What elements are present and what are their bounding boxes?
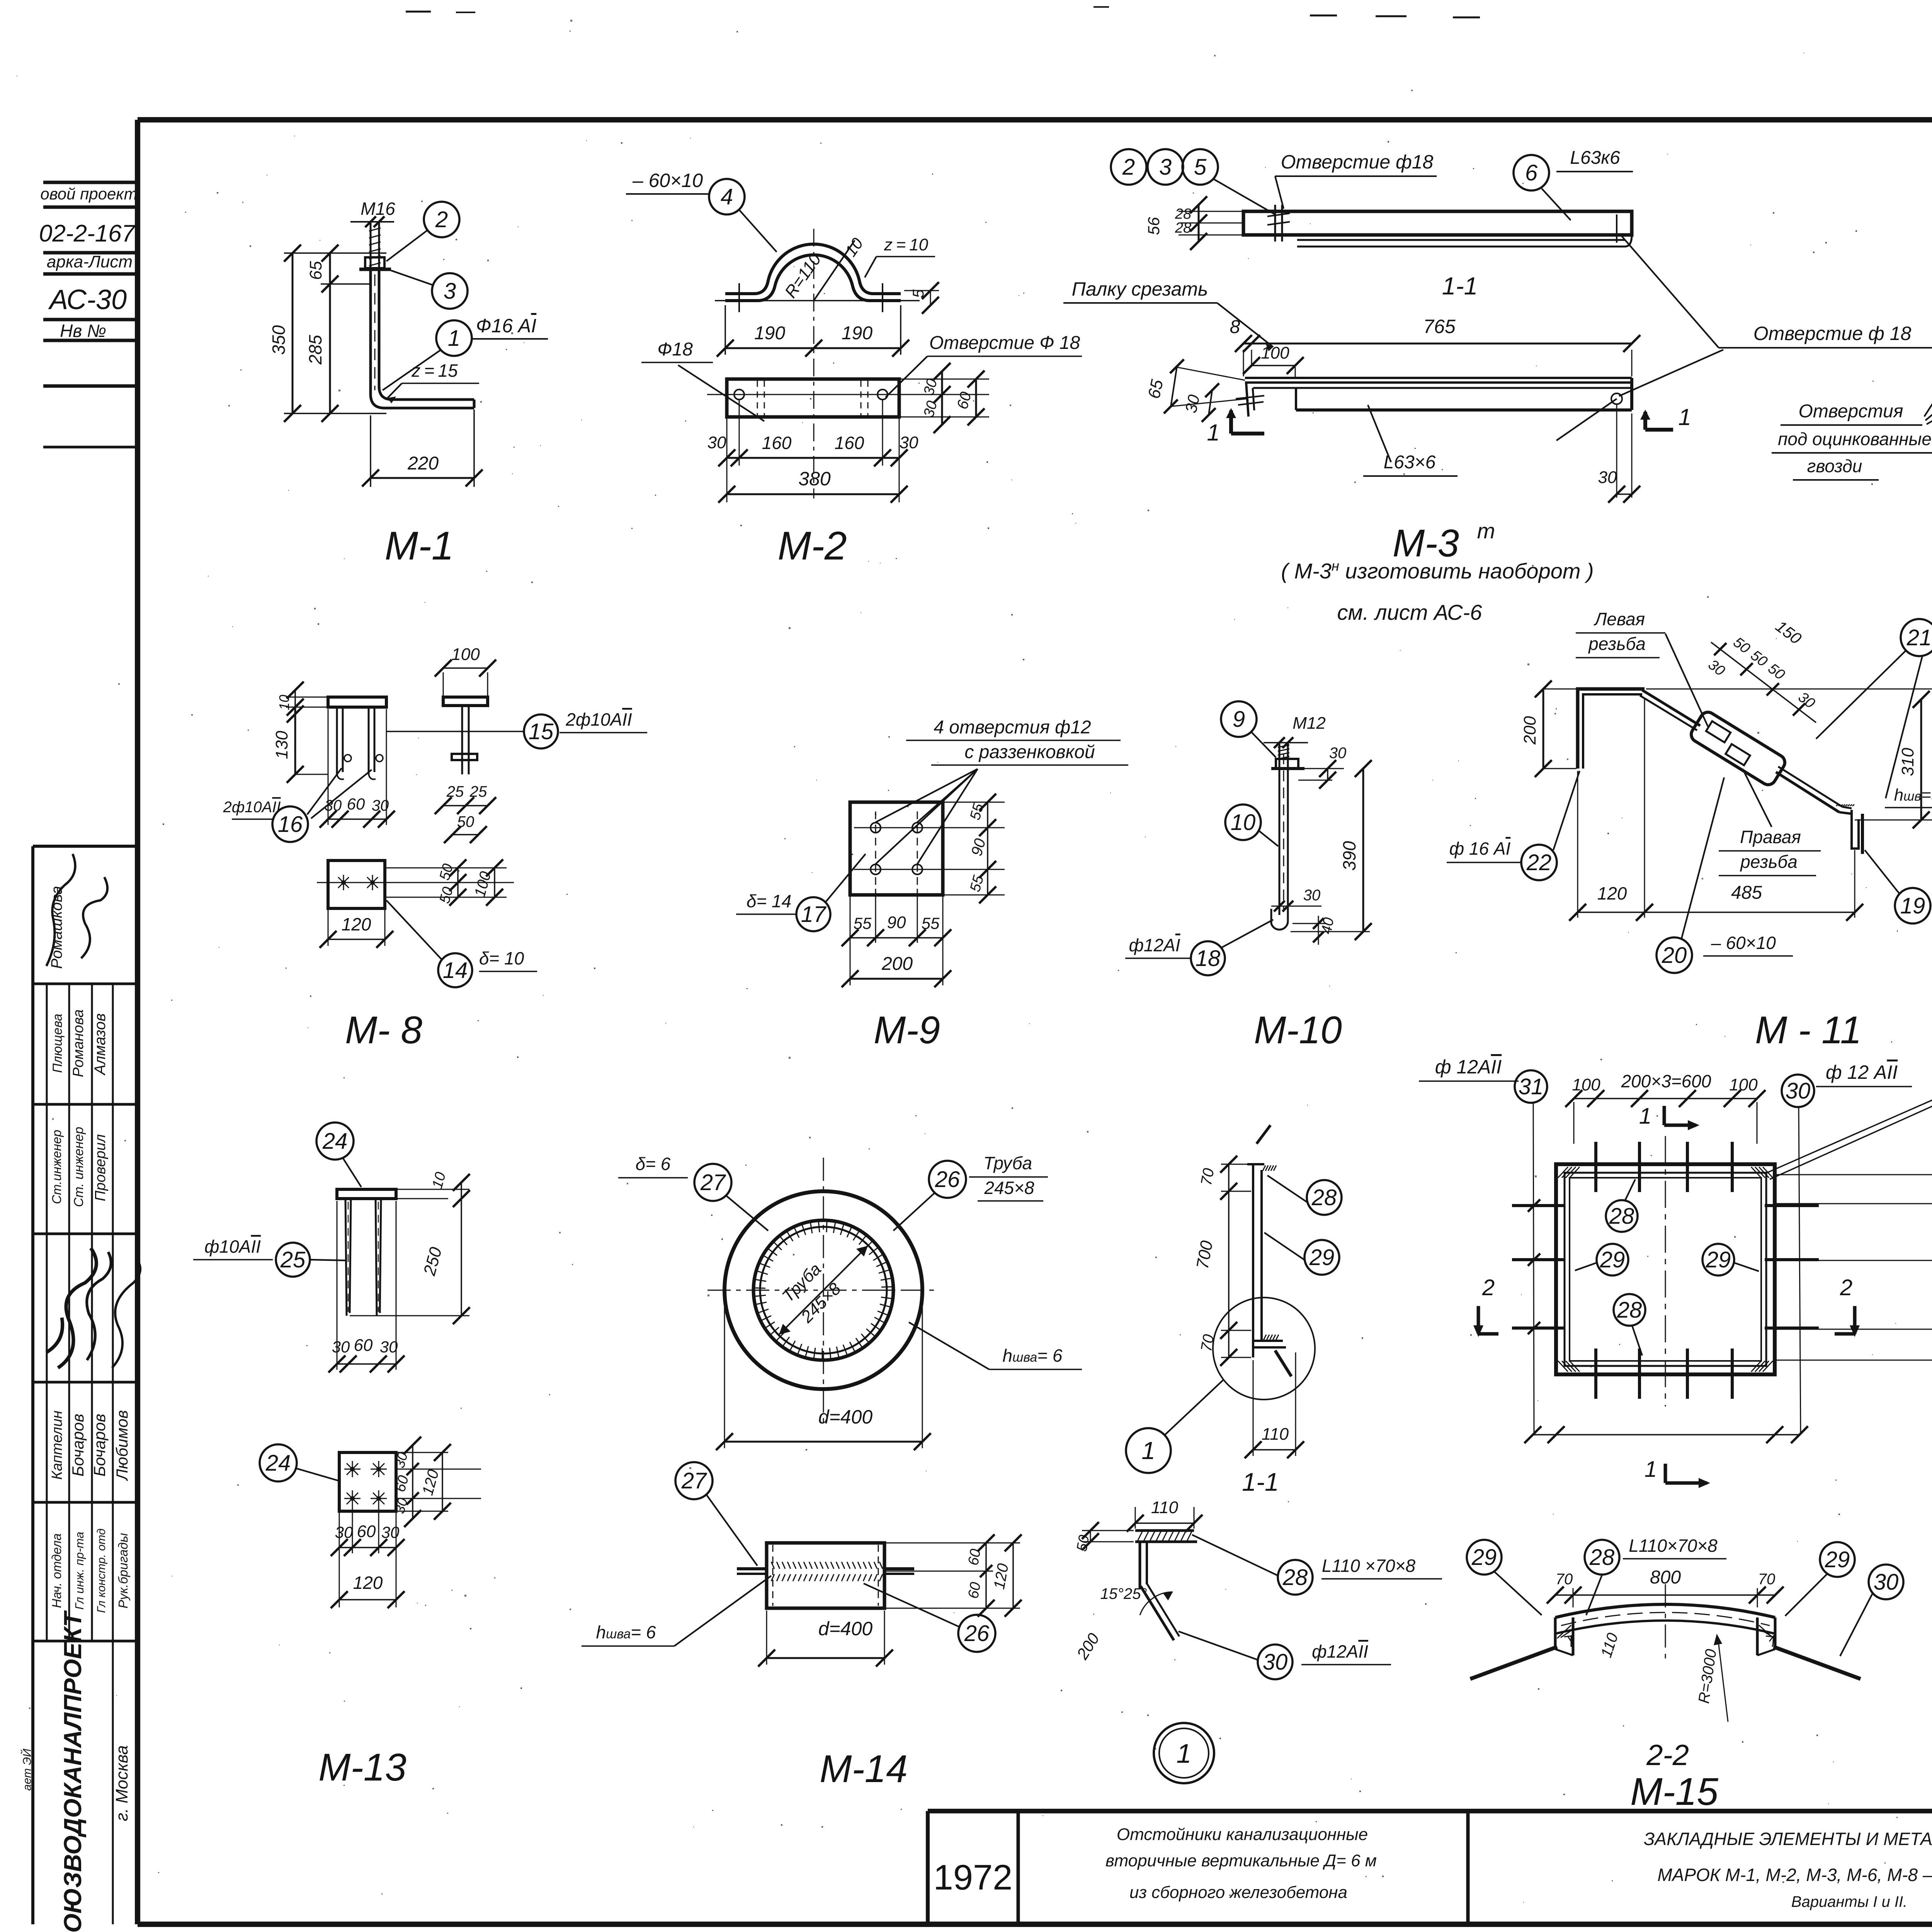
M-1 callout circle 2 — [424, 202, 459, 237]
M-8 elevation plate — [328, 697, 386, 707]
M-11 dim 200 — [1543, 689, 1577, 690]
M-15 inner squares — [1565, 1173, 1766, 1366]
svg-text:56: 56 — [1145, 217, 1163, 235]
svg-text:30: 30 — [332, 1338, 350, 1356]
figure M-15 section 2-2 curved sheet — [1555, 1604, 1775, 1617]
svg-text:2ф10АII: 2ф10АII — [223, 799, 281, 816]
1-1 dims 70 700 70 — [1221, 1164, 1251, 1165]
svg-text:55: 55 — [922, 914, 940, 932]
svg-text:2: 2 — [1840, 1275, 1852, 1300]
svg-text:8: 8 — [1230, 317, 1240, 337]
M-9 right dims 55 90 55 — [944, 802, 1005, 803]
svg-text:4 отверстия ф12: 4 отверстия ф12 — [934, 717, 1091, 738]
M-2 dim 380 — [727, 493, 899, 495]
M-2 callout 4 — [709, 179, 745, 214]
M-11 callout 19 L90x6 — [1895, 888, 1930, 923]
svg-text:10: 10 — [276, 695, 292, 710]
svg-text:25: 25 — [446, 783, 464, 800]
svg-text:гвозди: гвозди — [1807, 456, 1862, 476]
1-1 callouts 28 29 — [1307, 1180, 1342, 1215]
svg-text:ЗАКЛАДНЫЕ ЭЛЕМЕНТЫ И МЕ: ЗАКЛАДНЫЕ ЭЛЕМЕНТЫ И МЕТАЛЛОИЗДЕЛИЯ — [1644, 1829, 1932, 1849]
M-2 dim 190+190 — [724, 305, 726, 355]
M-8 callout 16 — [272, 806, 308, 842]
svg-text:овой проект: овой проект — [40, 185, 137, 203]
2-2 dims 70 800 70 — [1573, 1588, 1574, 1607]
M-3 top bar left end hole marks — [1274, 205, 1276, 241]
svg-text:60: 60 — [965, 1581, 984, 1600]
svg-text:30: 30 — [1263, 1650, 1288, 1675]
svg-text:М-15: М-15 — [1630, 1770, 1718, 1813]
svg-text:Гл инж. пр-та: Гл инж. пр-та — [73, 1532, 86, 1610]
stamp table rotated texts — [46, 854, 75, 966]
svg-text:2: 2 — [435, 207, 448, 232]
svg-text:130: 130 — [272, 731, 291, 759]
M-8 tee view — [443, 667, 488, 669]
svg-text:30: 30 — [1786, 1078, 1811, 1104]
M-14 axis lines — [707, 1290, 939, 1291]
svg-text:390: 390 — [1339, 841, 1359, 871]
M-14 side weld hatch — [771, 1562, 883, 1581]
svg-text:15°⁭25°: 15°⁭25° — [1100, 1585, 1147, 1602]
M-14 side dims 60 60 120 — [886, 1543, 1020, 1544]
svg-text:120: 120 — [1597, 883, 1627, 903]
svg-text:60: 60 — [357, 1522, 376, 1541]
M-11 dims 120 485 — [1577, 771, 1578, 918]
svg-text:– 60×10: – 60×10 — [1711, 933, 1776, 953]
svg-text:Отверстия: Отверстия — [1798, 401, 1903, 422]
svg-text:М-10: М-10 — [1254, 1009, 1342, 1052]
svg-text:19: 19 — [1900, 893, 1925, 918]
M-15 outer square — [1556, 1164, 1775, 1374]
M-13 plan bottom dims — [339, 1513, 340, 1607]
svg-text:350: 350 — [269, 325, 289, 355]
M-2 side dims 30 30 60 — [899, 379, 989, 380]
svg-text:М-9: М-9 — [874, 1009, 940, 1052]
M-2 radius line R=110 — [814, 240, 855, 301]
title block — [928, 1809, 1932, 1813]
M-10 callouts 9 10 18 — [1221, 701, 1257, 737]
svg-text:3: 3 — [1159, 155, 1172, 180]
bent rod — [1141, 1586, 1174, 1640]
svg-text:14: 14 — [443, 958, 468, 983]
svg-text:30: 30 — [1874, 1570, 1899, 1595]
svg-text:Бочаров: Бочаров — [90, 1414, 109, 1477]
svg-text:1-1: 1-1 — [1242, 1468, 1279, 1496]
svg-text:Ромашкова: Ромашкова — [48, 886, 65, 969]
svg-text:220: 220 — [407, 453, 439, 474]
svg-text:М12: М12 — [1293, 714, 1326, 733]
svg-text:28: 28 — [1311, 1185, 1337, 1210]
M-8 plan plate — [328, 861, 385, 908]
M-8 plan right dims 50 50 100 — [385, 867, 507, 869]
svg-text:δ= 10: δ= 10 — [479, 948, 524, 968]
M-10 nut washer — [1276, 759, 1298, 769]
svg-text:1: 1 — [1678, 404, 1691, 430]
M-1 dim 220 bottom — [370, 415, 371, 487]
M-1 nut and washer — [365, 257, 384, 268]
svg-text:31: 31 — [1519, 1074, 1544, 1099]
svg-text:29: 29 — [1309, 1245, 1335, 1270]
svg-text:20: 20 — [1662, 943, 1687, 968]
M-13 plan right dims 30 60 30 / 120 — [398, 1452, 448, 1453]
svg-text:25: 25 — [280, 1247, 306, 1272]
1-1 detail circle — [1213, 1298, 1315, 1400]
M-13 plan plate — [339, 1452, 396, 1511]
M-3 bottom view flange notch — [1295, 388, 1297, 410]
svg-text:2ф10АII: 2ф10АII — [565, 709, 632, 730]
svg-text:70: 70 — [1758, 1571, 1776, 1588]
svg-text:1: 1 — [1207, 420, 1219, 446]
M-15 corner weld hatch — [1558, 1167, 1568, 1178]
2-2 end angle blocks — [1572, 1617, 1575, 1655]
svg-text:т: т — [1477, 519, 1495, 543]
M-3 dim 8 + 765 — [1243, 350, 1244, 376]
svg-text:5: 5 — [1194, 155, 1207, 180]
M-15 callouts 28 29 inside — [1606, 1200, 1638, 1232]
svg-text:Нв №: Нв № — [60, 321, 106, 341]
M-11 slanted dims over turnbuckle — [1711, 642, 1816, 723]
svg-text:380: 380 — [798, 468, 831, 490]
svg-text:L63×6: L63×6 — [1384, 452, 1436, 473]
M-8 hook rods — [336, 707, 338, 774]
M-14 side flange — [737, 1567, 767, 1570]
svg-text:Отверстие ф18: Отверстие ф18 — [1281, 151, 1434, 173]
svg-text:90: 90 — [887, 913, 906, 932]
M-8 tee dims 25 25 50 — [443, 805, 488, 806]
angle horizontal leg — [1135, 1529, 1194, 1532]
svg-text:под оцинкованные: под оцинкованные — [1778, 429, 1932, 449]
M-15 long diagonal leaders to corner — [1764, 1098, 1932, 1174]
svg-text:Рук.бригады: Рук.бригады — [116, 1533, 130, 1608]
figure M-13: elevation — [337, 1189, 396, 1199]
svg-text:Отверстие Ф 18: Отверстие Ф 18 — [929, 333, 1080, 353]
svg-text:120: 120 — [353, 1573, 383, 1593]
M-3 dim 30 under hole — [1616, 404, 1617, 498]
svg-text:16: 16 — [278, 812, 303, 837]
M-1 dim 65 / 285 — [329, 253, 331, 413]
svg-text:1: 1 — [1639, 1104, 1651, 1129]
svg-text:26: 26 — [964, 1621, 990, 1646]
svg-text:ает ЭЙ: ает ЭЙ — [20, 1748, 34, 1791]
svg-text:3: 3 — [444, 279, 456, 304]
svg-text:Проверил: Проверил — [92, 1134, 109, 1201]
M-14 side view — [767, 1543, 884, 1608]
M-14 callout 27 side — [675, 1462, 713, 1499]
svg-text:60: 60 — [347, 795, 365, 813]
M-2 plan holes — [734, 389, 744, 400]
svg-text:Ф18: Ф18 — [657, 339, 693, 360]
svg-text:30: 30 — [372, 797, 389, 814]
M-13 bottom dims 30 60 30 — [337, 1201, 338, 1370]
upper-left stamp strip lines — [43, 181, 138, 184]
svg-text:4: 4 — [721, 184, 733, 209]
svg-text:60: 60 — [354, 1336, 373, 1355]
M-13 studs — [345, 1199, 347, 1316]
svg-text:ф 12 АII: ф 12 АII — [1826, 1061, 1898, 1083]
M-9 bottom dims 55 90 55 / 200 — [850, 896, 851, 985]
svg-text:285: 285 — [305, 335, 325, 365]
M-9 leader fan — [876, 769, 978, 822]
svg-text:30: 30 — [900, 433, 918, 452]
M-15 centreline dashed — [1665, 1136, 1666, 1406]
svg-text:30: 30 — [707, 433, 726, 452]
M-15 left dim column — [1512, 1205, 1534, 1206]
2-2 R=3000 — [1718, 1638, 1728, 1722]
svg-text:АС-30: АС-30 — [48, 284, 127, 315]
svg-text:М16: М16 — [361, 199, 395, 219]
svg-text:δ= 6: δ= 6 — [636, 1154, 671, 1174]
svg-text:765: 765 — [1423, 316, 1456, 337]
svg-text:100: 100 — [451, 645, 480, 664]
M-1 rod (phi16) bent L-shape — [371, 269, 474, 408]
M-2 centre axis — [813, 229, 815, 498]
svg-text:28: 28 — [1609, 1204, 1634, 1229]
svg-text:160: 160 — [762, 433, 792, 453]
M-14 weld hatch around inner ring — [754, 1221, 893, 1360]
svg-text:L63к6: L63к6 — [1570, 148, 1620, 168]
svg-text:100: 100 — [1261, 344, 1289, 362]
M-8 callout 14 delta=10 — [386, 900, 441, 959]
svg-text:( М-3н изготовить наоборот: ( М-3н изготовить наоборот ) — [1281, 558, 1594, 583]
svg-text:2-2: 2-2 — [1646, 1739, 1689, 1772]
svg-text:Ф16 АI: Ф16 АI — [476, 315, 537, 337]
svg-text:L110×70×8: L110×70×8 — [1629, 1536, 1718, 1556]
svg-text:Любимов: Любимов — [113, 1410, 131, 1481]
svg-text:10: 10 — [1231, 810, 1256, 835]
svg-text:100: 100 — [1729, 1075, 1758, 1094]
svg-text:Ст. инженер: Ст. инженер — [71, 1127, 86, 1207]
svg-text:1: 1 — [1645, 1457, 1657, 1482]
svg-text:30: 30 — [1598, 468, 1617, 487]
svg-text:29: 29 — [1471, 1545, 1497, 1570]
M-8 callout 15 — [386, 731, 524, 732]
2-2 splayed rebar ends — [1470, 1647, 1557, 1679]
1-1 top weld ticks — [1263, 1165, 1265, 1171]
svg-text:6: 6 — [1525, 160, 1538, 185]
svg-text:200×3=600: 200×3=600 — [1621, 1071, 1711, 1091]
svg-text:МАРОК М-1, М-2, М-3, М-6, М: МАРОК М-1, М-2, М-3, М-6, М-8 — М-15, М-… — [1657, 1865, 1932, 1885]
M-13 plan weld stars — [344, 1469, 361, 1470]
svg-text:Правая: Правая — [1740, 827, 1801, 847]
M-3 bottom view main bar — [1245, 377, 1632, 379]
svg-text:СОЮЗВОДОКАНАЛПРОЕКТ: СОЮЗВОДОКАНАЛПРОЕКТ — [59, 1610, 87, 1932]
M-2 foot hole marks — [738, 283, 740, 312]
svg-text:Отверстие ф 18: Отверстие ф 18 — [1753, 323, 1912, 344]
M-11 dim 310 right — [1646, 689, 1932, 690]
M-10 bottom hook — [1271, 909, 1288, 930]
svg-text:Ст.инженер: Ст.инженер — [49, 1130, 64, 1204]
M-11 callout 20 -60x10 — [1656, 937, 1692, 973]
M-14 inner diameter arrow — [779, 1246, 868, 1335]
M-15 anchor ticks top/bottom — [1594, 1142, 1597, 1192]
M-9 holes — [871, 823, 881, 833]
svg-text:вторичные вертикальные Д= 6 м: вторичные вертикальные Д= 6 м — [1105, 1851, 1377, 1870]
1-1 callout 1 — [1126, 1428, 1171, 1473]
M-11 turnbuckle body — [1689, 709, 1788, 788]
svg-text:29: 29 — [1825, 1547, 1850, 1572]
svg-text:30: 30 — [1303, 887, 1321, 904]
svg-text:29: 29 — [1600, 1247, 1625, 1272]
M-3 callout circles 2 3 5 — [1111, 149, 1146, 185]
svg-text:30: 30 — [380, 1338, 398, 1356]
M-2 arch outer and inner — [725, 244, 901, 294]
svg-text:15: 15 — [529, 719, 554, 744]
M-10 rod — [1279, 743, 1281, 915]
M-15 anchor ticks left/right — [1512, 1204, 1564, 1207]
svg-text:27: 27 — [681, 1468, 707, 1493]
svg-text:18: 18 — [1196, 946, 1221, 971]
svg-text:28: 28 — [1282, 1565, 1308, 1590]
svg-text:ф12АI: ф12АI — [1129, 935, 1180, 955]
M-8 plan dim 120 — [328, 910, 329, 946]
M-2 plan view plate — [727, 379, 899, 417]
svg-text:29: 29 — [1706, 1247, 1731, 1272]
svg-text:2: 2 — [1122, 155, 1135, 180]
M-3 section mark 1 bottom-left — [1229, 410, 1233, 427]
M-13 callout 24 plan — [260, 1444, 297, 1481]
M-3 section mark 1 right — [1643, 412, 1647, 430]
svg-text:70: 70 — [1198, 1333, 1218, 1353]
left stamp table grid — [31, 846, 34, 1924]
svg-text:Палку срезать: Палку срезать — [1072, 278, 1208, 300]
M-8 plan weld stars — [336, 882, 351, 883]
svg-text:Каптелин: Каптелин — [49, 1410, 65, 1480]
svg-text:δ= 14: δ= 14 — [747, 891, 791, 911]
svg-text:ф 12АII: ф 12АII — [1435, 1056, 1502, 1078]
stray dashes above top frame — [1310, 15, 1337, 17]
svg-text:24: 24 — [265, 1451, 291, 1476]
svg-text:z = 10: z = 10 — [884, 235, 929, 254]
M-3 dim 100 — [1295, 367, 1296, 378]
svg-text:из сборного железобетона: из сборного железобетона — [1129, 1883, 1347, 1902]
svg-text:1-1: 1-1 — [1442, 272, 1478, 300]
svg-text:Отстойники канализационные: Отстойники канализационные — [1117, 1825, 1368, 1844]
svg-text:310: 310 — [1898, 748, 1917, 776]
M-8 bottom dims 30 60 30 — [328, 709, 329, 825]
2-2 callouts 29 28 29 30 — [1467, 1540, 1502, 1575]
M-14 callout 26 side — [958, 1615, 995, 1652]
M-10 dim 30 washer — [1304, 768, 1344, 769]
svg-text:М-2: М-2 — [777, 524, 847, 568]
svg-text:30: 30 — [1329, 745, 1347, 762]
svg-text:d=400: d=400 — [818, 1406, 873, 1428]
svg-text:27: 27 — [700, 1170, 726, 1195]
svg-text:55: 55 — [854, 914, 872, 932]
svg-text:М- 8: М- 8 — [345, 1009, 422, 1052]
svg-text:М-14: М-14 — [820, 1747, 908, 1791]
svg-text:2: 2 — [1482, 1275, 1495, 1300]
svg-text:28: 28 — [1175, 220, 1191, 236]
M-13 callout 24 top — [316, 1122, 354, 1160]
svg-text:ф10АII: ф10АII — [204, 1236, 261, 1257]
svg-text:Труба: Труба — [983, 1153, 1032, 1173]
svg-text:см. лист АС-6: см. лист АС-6 — [1337, 600, 1483, 624]
M-1 callout circle 3 — [432, 273, 468, 309]
svg-text:резьба: резьба — [1740, 852, 1798, 872]
svg-text:28: 28 — [1617, 1298, 1642, 1323]
svg-text:120: 120 — [342, 914, 371, 934]
svg-text:30: 30 — [381, 1523, 400, 1541]
M-11 right angle piece — [1836, 804, 1838, 806]
M-15 right dims 100 250 250 100 — [1776, 1174, 1932, 1175]
svg-text:25: 25 — [469, 783, 487, 800]
M-11 callout 21 phi16AI — [1901, 619, 1932, 656]
callout 30 phi12AII — [1258, 1645, 1293, 1679]
M-3 bottom view left tab — [1246, 383, 1248, 417]
svg-text:г. Москва: г. Москва — [112, 1745, 131, 1821]
svg-text:– 60×10: – 60×10 — [632, 170, 703, 191]
svg-text:26: 26 — [935, 1167, 960, 1192]
svg-text:110: 110 — [1262, 1425, 1289, 1444]
svg-text:245×8: 245×8 — [984, 1178, 1034, 1198]
svg-text:60: 60 — [965, 1548, 984, 1566]
svg-text:17: 17 — [801, 902, 827, 927]
M-2 bottom dims 30 160 160 30 — [726, 418, 728, 502]
M-3 left dims 56 28 28 — [1179, 211, 1243, 212]
svg-text:200: 200 — [1520, 716, 1539, 745]
svg-text:22: 22 — [1526, 850, 1552, 875]
1-1 bottom leg — [1253, 1340, 1283, 1342]
svg-text:М - 11: М - 11 — [1755, 1009, 1862, 1052]
svg-text:160: 160 — [835, 433, 864, 453]
svg-text:02-2-167: 02-2-167 — [39, 220, 136, 247]
svg-text:70: 70 — [1556, 1571, 1573, 1588]
M-15 bottom dim line — [1533, 1434, 1799, 1435]
svg-text:L110 ×70×8: L110 ×70×8 — [1322, 1556, 1416, 1576]
svg-text:ф 16 АI: ф 16 АI — [1449, 838, 1511, 859]
M-6 leader fan to nail holes — [1924, 354, 1932, 417]
M-10 dim 390 — [1362, 769, 1364, 932]
svg-text:1: 1 — [448, 326, 460, 351]
svg-text:с раззенковкой: с раззенковкой — [964, 742, 1095, 762]
1-1 dim 110 — [1253, 1360, 1254, 1456]
svg-text:Плющева: Плющева — [50, 1014, 65, 1073]
M-3 bottom hole — [1611, 393, 1622, 404]
angle vertical leg — [1139, 1542, 1141, 1588]
big circled 1 — [1154, 1723, 1214, 1783]
svg-text:резьба: резьба — [1588, 634, 1646, 654]
drawing frame border — [138, 117, 1932, 122]
svg-text:Левая: Левая — [1594, 609, 1645, 629]
svg-text:190: 190 — [842, 323, 872, 344]
svg-text:24: 24 — [322, 1129, 348, 1154]
svg-text:Алмазов: Алмазов — [92, 1013, 109, 1075]
svg-text:арка-Лист: арка-Лист — [47, 252, 133, 271]
M-1 callout circle 1 — [436, 320, 472, 356]
svg-text:100: 100 — [1572, 1075, 1600, 1094]
svg-text:9: 9 — [1233, 707, 1245, 732]
svg-text:Бочаров: Бочаров — [69, 1414, 87, 1477]
M-3 top bar right hole tick — [1616, 214, 1617, 243]
figure M-14: ring plan — [724, 1191, 922, 1389]
svg-text:Гл констр. отд: Гл констр. отд — [95, 1529, 108, 1613]
M-1 bolt shank — [370, 222, 372, 269]
svg-text:d=400: d=400 — [818, 1618, 873, 1639]
M-8 leaders to callout 16 — [307, 768, 342, 815]
M-3 callout 6 with L63x6 — [1514, 155, 1549, 190]
svg-text:1: 1 — [1177, 1738, 1192, 1769]
figure M-9: plate 200x200 with 4 holes — [850, 802, 943, 895]
svg-text:28: 28 — [1589, 1545, 1615, 1570]
svg-text:30: 30 — [335, 1523, 353, 1541]
callout 28 L110x70x8 — [1278, 1560, 1313, 1595]
M-11 left bracket — [1578, 689, 1645, 769]
M-13 dim 10 + 250 — [398, 1189, 469, 1190]
M-3 slanted dims 65 30 — [1176, 367, 1245, 380]
M-8 dim 130 — [294, 707, 296, 774]
svg-text:Романова: Романова — [70, 1009, 87, 1077]
M-8 dim 10 thickness — [286, 697, 327, 698]
